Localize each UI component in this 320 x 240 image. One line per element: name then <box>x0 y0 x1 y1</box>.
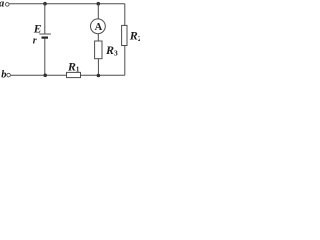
svg-text:a: a <box>0 0 4 10</box>
node: battery top junction <box>43 2 47 6</box>
wire: battery branch bottom <box>44 39 46 76</box>
node: R3 bottom junction <box>97 74 101 78</box>
resistor R3 <box>95 41 102 59</box>
svg-text:E: E <box>33 23 42 35</box>
terminal a <box>6 3 10 7</box>
svg-text:R1: R1 <box>67 59 80 73</box>
svg-text:r: r <box>33 35 37 46</box>
svg-text:b: b <box>1 70 6 81</box>
battery E long plate <box>39 33 51 35</box>
wire: bottom to terminal b <box>11 74 67 76</box>
resistor R1 <box>67 72 81 77</box>
terminal b <box>7 73 11 77</box>
wire top: a to top-right corner, down to R2 <box>9 4 125 26</box>
wire: ammeter feed <box>97 4 99 19</box>
svg-text:R3: R3 <box>105 43 118 57</box>
wire: R2 to bottom-right corner and bottom wire to R1 <box>81 46 125 76</box>
node: ammeter top junction <box>97 2 101 6</box>
svg-text:R2: R2 <box>129 29 140 43</box>
ammeter A <box>91 19 106 34</box>
wire: R3 to bottom <box>97 59 99 76</box>
node: battery bottom junction <box>43 74 47 78</box>
wire: ammeter to R3 <box>97 34 99 41</box>
svg-text:A: A <box>95 22 103 33</box>
resistor R2 <box>122 25 127 45</box>
battery short plate <box>42 36 49 38</box>
wire: battery branch top <box>44 4 46 34</box>
